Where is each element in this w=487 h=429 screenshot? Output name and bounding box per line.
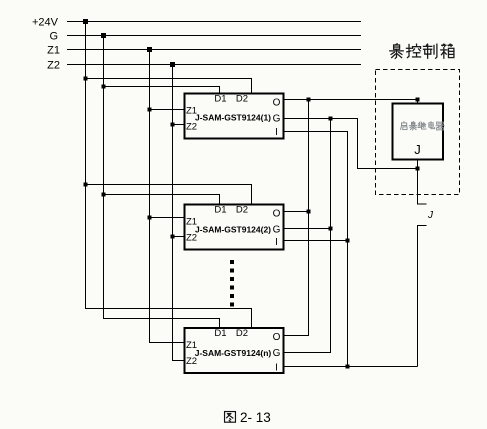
wire U2 G stub [284, 228, 331, 230]
svg-text:D1: D1 [214, 94, 226, 105]
svg-text:J-SAM-GST9124(n): J-SAM-GST9124(n) [195, 348, 272, 358]
wire Z1 feed to U2 [150, 217, 185, 219]
svg-text:+24V: +24V [32, 17, 59, 29]
module U2 J-SAM-GST9124(2) [185, 205, 284, 250]
wire contact J lower to I line [418, 226, 427, 367]
svg-text:Z2: Z2 [47, 60, 60, 72]
wire relay coil bottom to contact J upper [418, 160, 427, 205]
junction Z1 feed U2 [148, 216, 152, 220]
pump control box dashed enclosure [376, 70, 460, 195]
label 启泵继电器 (start pump relay) [401, 122, 445, 130]
wire +24V vertical drop, feed to U(n) D2 [86, 22, 252, 329]
svg-text:J-SAM-GST9124(1): J-SAM-GST9124(1) [195, 113, 271, 123]
relay K (start-pump relay) box [393, 104, 444, 160]
module U1 J-SAM-GST9124(1) [185, 94, 284, 139]
wire Z1 feed to U1 [150, 109, 185, 111]
svg-text:J-SAM-GST9124(2): J-SAM-GST9124(2) [195, 225, 271, 235]
junction G/drop [101, 33, 106, 38]
label 泵控制箱 (pump control box) [390, 44, 454, 59]
junction Z2/drop [170, 62, 175, 67]
svg-text:J: J [414, 142, 421, 157]
net Z2 bus [67, 64, 361, 66]
junction +24V feed U1 [84, 77, 88, 81]
svg-text:D1: D1 [214, 205, 226, 216]
junction G line U2 [329, 227, 333, 231]
svg-text:D1: D1 [214, 328, 226, 339]
junction O line U2 [307, 210, 311, 214]
svg-text:2- 13: 2- 13 [240, 410, 271, 425]
net G bus [67, 35, 361, 37]
junction I line U(n) [346, 365, 350, 369]
wire U1 O output to relay box top [284, 100, 418, 104]
wire U(n) I line to contact J [284, 366, 418, 368]
svg-text:D2: D2 [236, 94, 248, 105]
wire U1 G output to relay bottom node [284, 119, 418, 169]
wire U1 I output common vertical [284, 132, 348, 367]
wire U2 I stub [284, 240, 348, 242]
svg-text:G: G [273, 114, 281, 125]
svg-text:O: O [273, 332, 281, 343]
svg-text:Z1: Z1 [47, 45, 60, 57]
svg-text:O: O [273, 98, 281, 109]
junction G line U1 [329, 117, 333, 121]
svg-text:J: J [427, 210, 434, 221]
wire G feed to U2 D1 [104, 195, 220, 205]
svg-text:G: G [49, 31, 58, 43]
svg-text:O: O [273, 209, 281, 220]
net Z1 bus [67, 49, 361, 51]
svg-text:G: G [273, 225, 281, 236]
net +24V bus [67, 21, 361, 23]
junction relay top [416, 98, 420, 102]
wire G common vertical [284, 119, 331, 353]
wire G vertical drop, feed to U(n) D1 [104, 36, 220, 329]
junction G feed U1 [102, 85, 106, 89]
wire O common vertical [284, 100, 309, 336]
caption 图 2-13 [225, 412, 236, 423]
module U(n) J-SAM-GST9124(n) [185, 328, 284, 374]
svg-text:I: I [275, 363, 278, 374]
junction G feed U2 [102, 193, 106, 197]
svg-text:I: I [275, 237, 278, 248]
junction relay bottom [416, 167, 420, 171]
wire U2 O stub [284, 211, 309, 213]
junction Z1 feed U1 [148, 108, 152, 112]
svg-text:D2: D2 [236, 328, 248, 339]
junction Z2 feed U1 [171, 123, 175, 127]
svg-text:Z2: Z2 [186, 122, 197, 133]
wire +24V feed to U2 D2 [86, 185, 252, 205]
svg-text:D2: D2 [236, 205, 248, 216]
svg-text:I: I [275, 127, 278, 138]
wire Z1 vertical drop, feed to U(n) Z1 [150, 50, 185, 343]
wire Z2 vertical drop, feed to U(n) Z2 [173, 65, 185, 361]
junction +24V feed U2 [84, 183, 88, 187]
junction I line U2 [346, 239, 350, 243]
wire G feed to U1 D1 [104, 87, 220, 94]
junction Z1/drop [147, 47, 152, 52]
junction O line U1 [307, 98, 311, 102]
wire Z2 feed to U1 [173, 124, 185, 126]
wire +24V feed to U1 D2 [86, 79, 252, 94]
svg-text:G: G [273, 348, 281, 359]
junction +24V/drop [83, 19, 88, 24]
wire Z2 feed to U2 [173, 236, 185, 238]
ellipsis between modules [230, 260, 234, 307]
junction Z2 feed U2 [171, 235, 175, 239]
